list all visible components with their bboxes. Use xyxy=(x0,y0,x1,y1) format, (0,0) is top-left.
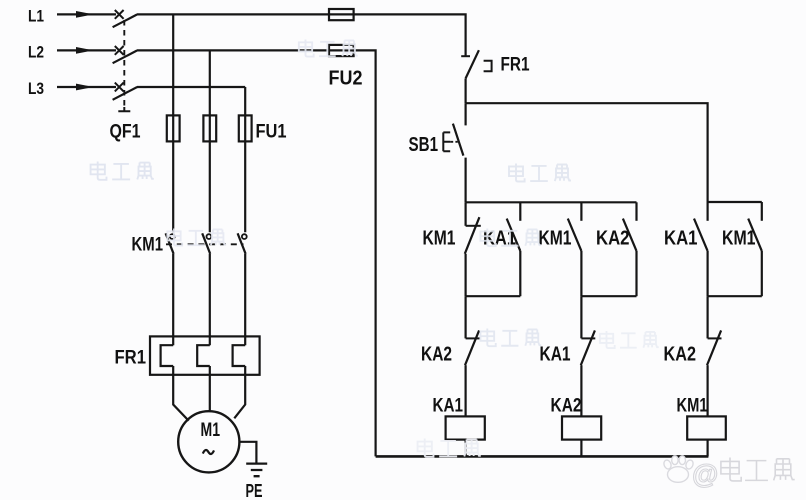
svg-text:KM1: KM1 xyxy=(539,228,572,250)
svg-text:FR1: FR1 xyxy=(115,348,147,369)
svg-text:KA1: KA1 xyxy=(540,344,571,366)
svg-text:FR1: FR1 xyxy=(501,55,530,76)
svg-text:PE: PE xyxy=(246,481,263,500)
svg-text:KM1: KM1 xyxy=(722,228,756,250)
svg-text:L2: L2 xyxy=(28,43,44,62)
svg-text:SB1: SB1 xyxy=(409,134,439,156)
svg-text:L3: L3 xyxy=(28,79,44,98)
svg-text:KM1: KM1 xyxy=(677,395,708,417)
svg-text:M1: M1 xyxy=(201,420,221,441)
svg-text:KA2: KA2 xyxy=(596,228,630,250)
svg-text:KA2: KA2 xyxy=(421,344,452,366)
svg-text:@: @ xyxy=(692,459,718,489)
svg-text:KM1: KM1 xyxy=(132,235,164,256)
svg-text:KA1: KA1 xyxy=(664,228,698,250)
svg-text:KM1: KM1 xyxy=(423,228,456,250)
svg-text:FU2: FU2 xyxy=(329,68,363,90)
svg-text:L1: L1 xyxy=(28,7,44,26)
svg-text:KA2: KA2 xyxy=(664,344,697,366)
svg-text:FU1: FU1 xyxy=(256,122,287,143)
svg-text:KA1: KA1 xyxy=(433,395,464,417)
svg-text:QF1: QF1 xyxy=(110,122,141,143)
svg-text:KA2: KA2 xyxy=(551,395,582,417)
